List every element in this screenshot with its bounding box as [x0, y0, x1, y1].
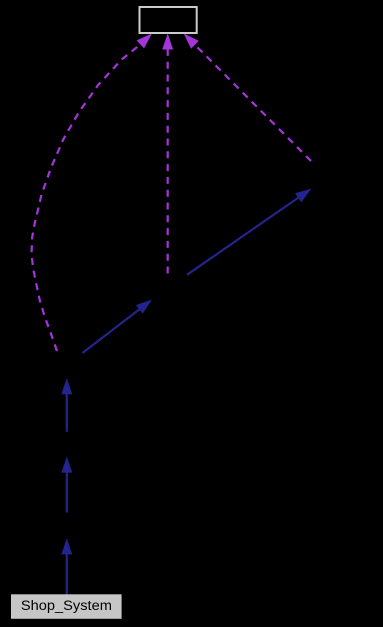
edge B2 solid from node C1 up to node C2 [66, 472, 68, 512]
arrowhead B2 (blue, pointing up) [61, 457, 72, 473]
arrowhead B3 (blue, pointing up) [61, 378, 72, 394]
arrowhead B5 (blue, pointing up-right) [295, 189, 311, 203]
arrowhead E1 (purple, pointing up-right into top box) [137, 34, 152, 49]
edge B5 solid diagonal from node N2 to node N3 [187, 198, 299, 275]
arrowhead E3 (purple, pointing up-left into top box) [184, 34, 199, 49]
arrowhead B4 (blue, pointing up-right) [136, 300, 152, 314]
svg-text:Shop_System: Shop_System [21, 598, 112, 613]
arrowhead B1 (blue, pointing up) [61, 538, 72, 554]
edge E2 dashed vertical from node N2 to top box (middle) [167, 49, 169, 274]
node Shop_System (filled gray box with label) [11, 594, 122, 619]
edge B4 solid diagonal from node C3 to node N2 [82, 309, 139, 353]
arrowhead E2 (purple, pointing up into top box) [162, 34, 173, 50]
edge E3 dashed line from node N3 to top box (right side) [195, 45, 311, 161]
edge E1 dashed curve from node C3 to top box (left side) [32, 44, 141, 351]
edge B3 solid from node C2 up to node C3 [66, 394, 68, 432]
edge B1 solid from Shop_System up to node C1 [66, 554, 68, 594]
node top box (outlined, empty) [140, 7, 197, 33]
